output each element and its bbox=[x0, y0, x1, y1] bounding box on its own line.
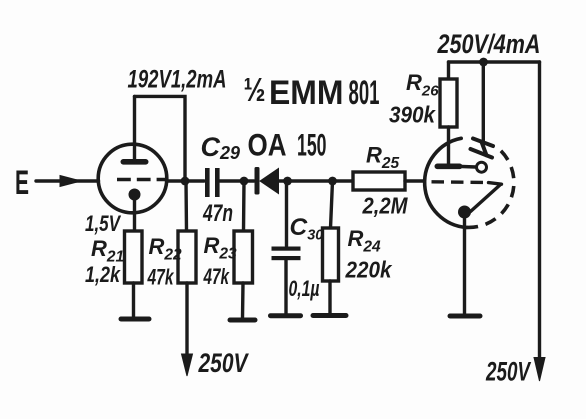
resistor R22 bbox=[178, 181, 196, 356]
target screen electrode (rotated H) bbox=[471, 139, 494, 158]
cathode dot (U2) bbox=[458, 206, 471, 219]
svg-text:C30: C30 bbox=[290, 214, 324, 244]
svg-text:220k: 220k bbox=[345, 257, 393, 283]
cathode lead (U2) bbox=[463, 216, 466, 314]
signal direction arrow bbox=[60, 176, 81, 187]
cathode lead (V1) bbox=[133, 197, 136, 231]
wire anode to node A (192V feed) bbox=[135, 96, 186, 181]
deflection electrode wire and terminal circle bbox=[462, 162, 487, 172]
svg-text:1,5V: 1,5V bbox=[85, 211, 122, 236]
node D junction dot bbox=[328, 177, 337, 186]
svg-text:390k: 390k bbox=[389, 102, 436, 128]
ground (below R23) bbox=[230, 318, 255, 323]
wire E to tube grid bbox=[36, 179, 99, 182]
node A junction dot bbox=[181, 177, 190, 186]
grid dashed (U2) bbox=[432, 180, 488, 184]
resistor R24 bbox=[323, 181, 339, 314]
resistor R23 bbox=[234, 181, 253, 318]
svg-text:R23: R23 bbox=[204, 233, 238, 263]
resistor R26 bbox=[440, 62, 457, 164]
ground (below R21) bbox=[121, 317, 149, 322]
svg-text:0,1µ: 0,1µ bbox=[289, 276, 320, 301]
svg-text:250V: 250V bbox=[485, 357, 531, 387]
svg-text:801: 801 bbox=[349, 74, 380, 112]
svg-text:192V1,2mA: 192V1,2mA bbox=[128, 66, 227, 94]
capacitor C29 bbox=[189, 168, 240, 197]
svg-text:R24: R24 bbox=[348, 226, 382, 256]
diode OA150 bbox=[244, 167, 288, 195]
svg-text:EMM: EMM bbox=[269, 74, 344, 112]
target screen lead from rail bbox=[482, 62, 485, 142]
anode lead (V1) bbox=[133, 97, 136, 163]
capacitor C30 bbox=[272, 181, 301, 314]
wire grid line tube right side to node A bbox=[167, 179, 187, 182]
svg-text:250V/4mA: 250V/4mA bbox=[437, 29, 541, 59]
ground (below U2 cathode) bbox=[450, 314, 480, 319]
rail junction dot bbox=[479, 58, 488, 67]
cathode dot (V1) bbox=[129, 189, 141, 201]
anode deflection bar (U2) bbox=[435, 164, 463, 170]
svg-text:47n: 47n bbox=[202, 200, 233, 227]
beam arrow (U2) bbox=[471, 183, 502, 212]
svg-text:R26: R26 bbox=[406, 70, 439, 100]
svg-text:C29: C29 bbox=[201, 132, 241, 163]
svg-text:2,2M: 2,2M bbox=[362, 193, 409, 219]
supply arrow 250V (right) bbox=[534, 358, 545, 382]
triode tube V1 envelope bbox=[98, 144, 167, 213]
magic eye tube U2 envelope: dashed right arc bbox=[467, 151, 514, 228]
ground (below C30) bbox=[271, 313, 301, 318]
svg-text:47k: 47k bbox=[147, 265, 175, 290]
node B junction dot bbox=[240, 177, 249, 186]
svg-text:R25: R25 bbox=[366, 143, 400, 173]
ground (below R24) bbox=[313, 313, 346, 318]
node C junction dot bbox=[283, 177, 292, 186]
right rail drop wire bbox=[538, 62, 541, 359]
svg-text:250V: 250V bbox=[198, 348, 249, 378]
svg-text:47k: 47k bbox=[203, 264, 230, 289]
svg-text:OA: OA bbox=[248, 127, 287, 163]
magic eye tube U2 envelope: solid left arc bbox=[425, 138, 467, 227]
supply rail wire bbox=[449, 60, 540, 63]
supply arrow 250V (left) bbox=[182, 354, 193, 376]
grid dashed (V1) bbox=[117, 178, 166, 181]
svg-text:E: E bbox=[15, 164, 29, 202]
resistor R25 bbox=[333, 172, 425, 190]
wire node C to node D bbox=[288, 179, 333, 182]
svg-text:½: ½ bbox=[244, 71, 266, 108]
anode bar (V1) bbox=[121, 159, 149, 165]
svg-text:1,2k: 1,2k bbox=[85, 262, 121, 287]
svg-text:150: 150 bbox=[297, 127, 327, 163]
resistor R21 bbox=[125, 231, 143, 317]
